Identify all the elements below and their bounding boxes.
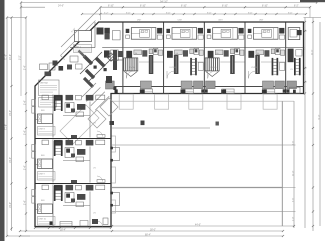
svg-text:71'-8″: 71'-8″ bbox=[5, 54, 7, 60]
bottom overall dimension line bbox=[20, 235, 283, 237]
left wing division wall y=138.5 bbox=[35, 138, 111, 140]
svg-text:BED: BED bbox=[263, 32, 268, 34]
porch post x=263.6 bbox=[264, 89, 267, 93]
bottom building dim line bbox=[35, 227, 111, 229]
bottom dimension line upper bbox=[112, 225, 294, 227]
party wall x=285.7 bbox=[285, 22, 287, 94]
parking stall x=119.2 bbox=[119, 94, 133, 109]
porch post x=222.9 bbox=[223, 89, 226, 93]
overall top dimension line bbox=[21, 2, 317, 4]
party wall x=204.3 bbox=[203, 22, 205, 94]
drive area post 2 bbox=[216, 122, 219, 126]
elbow secondary text block bbox=[39, 98, 57, 108]
svg-text:8'-10″: 8'-10″ bbox=[262, 6, 268, 8]
parking stall x=227.0 bbox=[227, 94, 241, 109]
svg-text:24'-6″: 24'-6″ bbox=[9, 54, 12, 60]
corner porch post bbox=[110, 121, 115, 125]
svg-text:24'-6″: 24'-6″ bbox=[58, 6, 64, 8]
elbow unit label block bbox=[39, 80, 60, 96]
svg-text:8'-10″: 8'-10″ bbox=[108, 6, 114, 8]
bottom dimension line middle bbox=[20, 230, 283, 232]
svg-text:LIVING: LIVING bbox=[251, 67, 258, 69]
start bay fixture cluster bbox=[118, 51, 123, 57]
porch post x=182.2 bbox=[182, 89, 185, 93]
dim extension at building corner bbox=[99, 7, 101, 20]
start bay utility bar bbox=[113, 50, 117, 70]
porch post x=114.5 bbox=[115, 89, 118, 93]
svg-text:8'-10″: 8'-10″ bbox=[222, 6, 228, 8]
building outer wall bbox=[35, 22, 304, 227]
svg-text:BED: BED bbox=[41, 200, 46, 202]
stoop rect row 3 bbox=[105, 200, 116, 213]
driveway right edge bbox=[281, 102, 283, 227]
svg-text:BED: BED bbox=[181, 32, 186, 34]
party wall x=245.0 bbox=[244, 22, 246, 94]
drive area post 1 bbox=[141, 121, 145, 126]
svg-text:5'-2″: 5'-2″ bbox=[104, 12, 109, 14]
svg-text:BED: BED bbox=[41, 155, 46, 157]
svg-text:2'-0″: 2'-0″ bbox=[293, 217, 295, 221]
porch slabs at wall x=285.7 bbox=[275, 81, 285, 89]
top dimension line segments bbox=[100, 6, 310, 8]
left wing unit 9 interior bbox=[32, 140, 120, 183]
svg-text:BED: BED bbox=[41, 110, 46, 112]
parking ground line bbox=[112, 100, 294, 102]
driveway line row 1 bbox=[112, 127, 210, 129]
bottom unit entry steps bbox=[60, 222, 72, 227]
svg-text:9'-6″: 9'-6″ bbox=[207, 12, 212, 14]
diagonal dimension line bbox=[61, 8, 100, 47]
right overall dimension line bbox=[319, 22, 321, 226]
svg-text:44'-6″: 44'-6″ bbox=[195, 224, 201, 226]
corner dark blobs bbox=[94, 66, 97, 69]
stoop rect row 2 bbox=[105, 167, 116, 183]
svg-text:LIVING: LIVING bbox=[170, 67, 177, 69]
top dimension line left segment bbox=[21, 6, 45, 8]
svg-text:94'-10″: 94'-10″ bbox=[160, 0, 168, 3]
left wing unit 10 interior bbox=[32, 185, 120, 228]
top wing unit 5 interior bbox=[246, 28, 286, 94]
driveway line row 4 bbox=[112, 211, 282, 213]
svg-text:UNIT 8: UNIT 8 bbox=[39, 129, 46, 131]
diagonal parking hatch bbox=[82, 83, 109, 110]
scanned page edge: dark left bar bbox=[0, 0, 5, 241]
overall left dimension line bbox=[6, 18, 8, 237]
svg-text:24'-0″: 24'-0″ bbox=[293, 170, 295, 176]
svg-text:24'-6″: 24'-6″ bbox=[311, 49, 313, 55]
driveway line row 3 bbox=[112, 187, 282, 189]
svg-text:88'-4″: 88'-4″ bbox=[145, 234, 151, 236]
stoop rect row 1 bbox=[105, 136, 116, 152]
parking stall x=188.8 bbox=[189, 94, 203, 109]
parking stall x=263.1 bbox=[263, 94, 277, 109]
svg-text:9'-2″: 9'-2″ bbox=[19, 55, 21, 60]
corner stair stringers bbox=[80, 52, 102, 74]
svg-text:9'-6″: 9'-6″ bbox=[166, 12, 171, 14]
svg-text:9'-6″: 9'-6″ bbox=[288, 12, 293, 14]
top room dimension line bbox=[82, 13, 306, 15]
driveway line row 2 bbox=[112, 144, 282, 146]
right dimension line inner bbox=[304, 18, 306, 229]
left dim extension line bbox=[20, 3, 22, 97]
party wall x=122.9 bbox=[122, 22, 124, 94]
diagonal garage outline bbox=[60, 105, 99, 144]
svg-text:9'-6″: 9'-6″ bbox=[126, 12, 131, 14]
top wing unit 4 interior bbox=[205, 28, 245, 94]
top wing unit 2 interior bbox=[123, 28, 163, 94]
top-right dim extension bbox=[309, 7, 311, 17]
left wing unit 8 interior bbox=[32, 95, 105, 138]
corner unit kitchen fixtures bbox=[70, 56, 78, 62]
svg-text:8'-10″: 8'-10″ bbox=[140, 6, 146, 8]
left dimension line segments bbox=[11, 18, 13, 232]
svg-text:5'-4″: 5'-4″ bbox=[24, 100, 26, 105]
svg-text:9'-6″: 9'-6″ bbox=[248, 12, 253, 14]
party wall x=163.6 bbox=[163, 22, 165, 94]
bottom-left porch post bbox=[50, 222, 53, 225]
right dimension line lower inner bbox=[293, 101, 295, 228]
front patio edge along diagonal bbox=[61, 21, 96, 56]
left inner dimension line bbox=[25, 18, 27, 232]
svg-text:9'-6″: 9'-6″ bbox=[293, 141, 295, 145]
corner unit entry steps bbox=[106, 76, 112, 83]
svg-text:5'-4″: 5'-4″ bbox=[24, 200, 26, 205]
svg-text:71'-8″: 71'-8″ bbox=[4, 124, 7, 130]
scanned page edge: dark top-right bar bbox=[300, 0, 325, 2]
svg-text:9'-6″: 9'-6″ bbox=[293, 198, 295, 202]
diagonal parking stall 2 bbox=[88, 110, 106, 128]
svg-text:38'-0″: 38'-0″ bbox=[150, 229, 156, 231]
svg-text:8'-10″: 8'-10″ bbox=[181, 6, 187, 8]
corner unit label block bbox=[74, 45, 92, 53]
svg-text:15'-0″: 15'-0″ bbox=[9, 110, 12, 116]
corner unit closets bbox=[97, 28, 104, 35]
svg-text:71'-0″: 71'-0″ bbox=[318, 114, 320, 120]
hatched diagonal closet bbox=[107, 53, 116, 62]
bottom unit bath fixtures bbox=[92, 219, 98, 224]
svg-text:UNIT A2: UNIT A2 bbox=[40, 82, 49, 85]
corner unit interior walls bbox=[94, 22, 96, 48]
svg-text:BED: BED bbox=[140, 32, 145, 34]
top wing start cell interior bbox=[104, 50, 110, 57]
top wing inner bottom wall bbox=[111, 86, 304, 88]
svg-text:5'-4″: 5'-4″ bbox=[24, 130, 26, 135]
svg-text:15'-0″: 15'-0″ bbox=[9, 157, 12, 163]
top wing unit 3 interior bbox=[164, 28, 204, 94]
svg-text:UNIT 9: UNIT 9 bbox=[39, 174, 46, 176]
parking stall x=154.6 bbox=[155, 94, 169, 109]
svg-text:UNIT 10: UNIT 10 bbox=[39, 219, 47, 221]
corner unit upper stair run bbox=[79, 51, 86, 58]
left dim top extension bbox=[7, 17, 26, 19]
top-left dim extension bbox=[20, 3, 22, 18]
corner unit stair runs bbox=[84, 56, 105, 78]
porch post x=141.5 bbox=[142, 89, 145, 93]
elbow kitchen fixtures bbox=[40, 64, 48, 70]
svg-text:15'-0″: 15'-0″ bbox=[9, 202, 12, 208]
top wing right end unit interior bbox=[294, 58, 296, 75]
right dimension line middle bbox=[312, 18, 314, 232]
svg-text:LIVING: LIVING bbox=[129, 67, 136, 69]
corner unit bed bbox=[75, 31, 92, 42]
left wing division wall y=183.5 bbox=[35, 183, 111, 185]
svg-text:LIVING: LIVING bbox=[210, 67, 217, 69]
unit entry clusters above division walls bbox=[71, 135, 77, 138]
svg-text:8'-2″: 8'-2″ bbox=[294, 6, 299, 8]
svg-text:5'-4″: 5'-4″ bbox=[24, 165, 26, 170]
svg-text:5'-4″: 5'-4″ bbox=[24, 65, 26, 70]
right dim top extension bbox=[304, 17, 322, 19]
svg-text:BED: BED bbox=[222, 32, 227, 34]
porch slabs at wall x=204.3 bbox=[194, 81, 204, 89]
diagonal parking stall 1 bbox=[100, 98, 118, 116]
left dim bottom extension bbox=[7, 235, 30, 237]
svg-text:18'-4″: 18'-4″ bbox=[60, 229, 66, 231]
diagonal walk band bbox=[84, 78, 93, 87]
